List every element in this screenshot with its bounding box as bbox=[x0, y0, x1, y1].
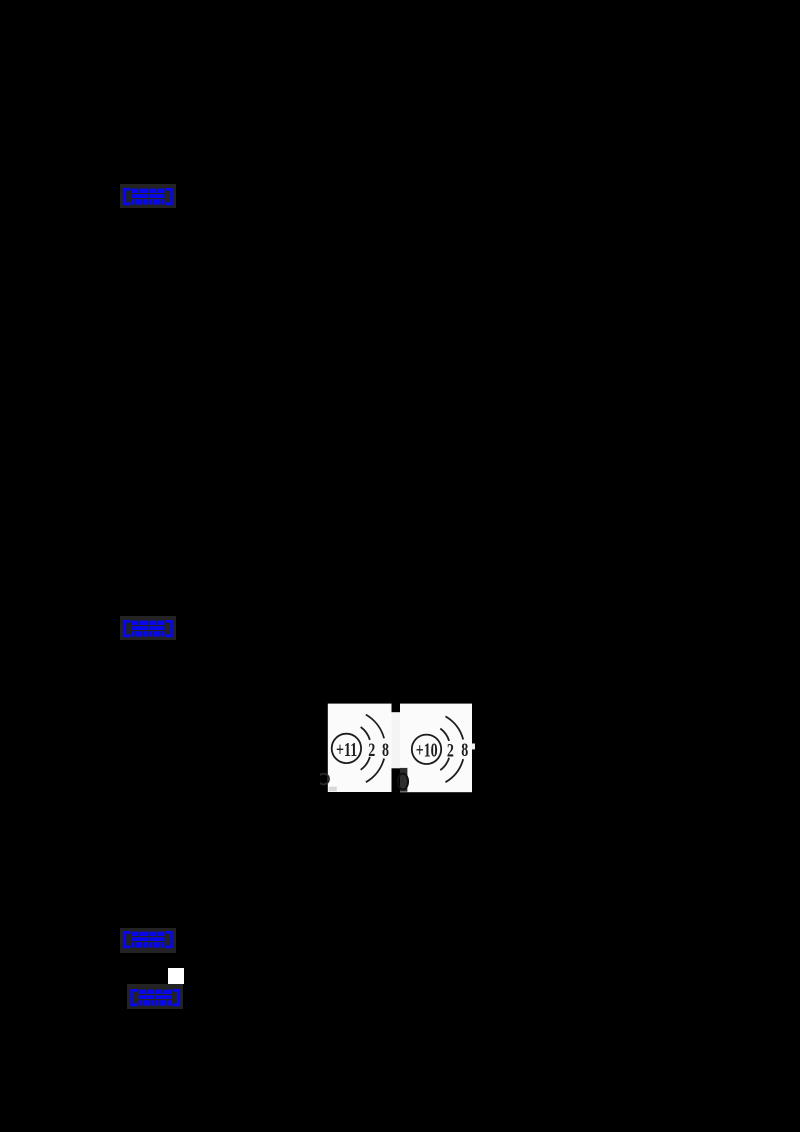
svg-text:2: 2 bbox=[447, 740, 454, 762]
svg-text:2: 2 bbox=[368, 739, 375, 761]
atomic structure diagrams image bbox=[320, 698, 480, 798]
svg-text:+11: +11 bbox=[336, 739, 357, 761]
label box 4: 【点评】 bbox=[127, 984, 183, 1009]
label box 3: 【考点】 bbox=[120, 928, 176, 953]
right diagram: Ne atom, nucleus +10 bbox=[412, 716, 463, 782]
left diagram: Na+ ion, nucleus +11 bbox=[332, 715, 384, 783]
svg-text:+10: +10 bbox=[416, 739, 438, 761]
svg-text:8: 8 bbox=[461, 739, 468, 761]
label box 1: 【分析】 bbox=[120, 184, 176, 208]
svg-text:8: 8 bbox=[382, 739, 389, 761]
white nub right of right patch bbox=[472, 744, 475, 750]
label box 2: 【解答】 bbox=[120, 616, 176, 640]
small white inline image placeholder bbox=[168, 968, 184, 984]
light gray square bottom-left bbox=[329, 787, 337, 792]
white background patches; svg origin = (320,698) page coords bbox=[328, 704, 392, 792]
dark glyph block at bottom middle of right patch bbox=[400, 768, 407, 792]
sliver partial circle at left edge of left patch bbox=[318, 774, 329, 785]
